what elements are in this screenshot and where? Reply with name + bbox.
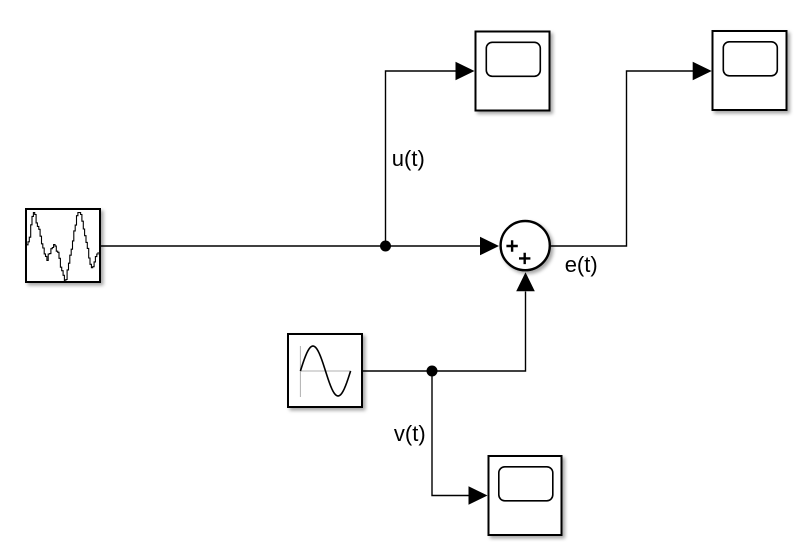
svg-text:u(t): u(t) bbox=[392, 146, 425, 171]
svg-text:v(t): v(t) bbox=[394, 421, 426, 446]
svg-text:e(t): e(t) bbox=[565, 252, 598, 277]
